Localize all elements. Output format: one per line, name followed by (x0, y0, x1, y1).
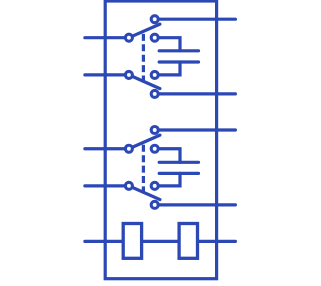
wire: contact set 1 NC contact 1 to plate (155, 38, 180, 51)
switch blade: contact set 1 pole 2 (129, 75, 160, 89)
coil winding 1 (123, 224, 141, 259)
wire: contact set 1 NC contact 2 to plate (155, 62, 180, 75)
plate: contact set 2 lower bar (159, 172, 198, 175)
wire: contact set 2 pole 2 lead (left) (85, 184, 129, 187)
contact circle: set 1 NO bottom (151, 90, 158, 97)
mechanical link (dashed) contact set 2 (142, 145, 145, 194)
plate: contact set 1 upper bar (159, 49, 198, 52)
plate: contact set 1 lower bar (159, 60, 198, 63)
contact circle: set 1 NC 2 (151, 71, 158, 78)
contact circle: set 2 pole 1 (125, 145, 132, 152)
wire: contact set 1 pole 1 lead (left) (85, 36, 129, 39)
switch blade: contact set 1 pole 1 (129, 24, 160, 38)
wire: contact set 2 NC contact 2 to plate (155, 173, 180, 185)
switch blade: contact set 2 pole 2 (129, 186, 160, 200)
wire: contact set 1 NO throw lead (bottom right) (155, 92, 236, 95)
contact circle: set 1 pole 1 (125, 34, 132, 41)
wire: contact set 2 pole 1 lead (left) (85, 147, 129, 150)
contact circle: set 1 NO top (151, 16, 158, 23)
wire: contact set 2 NO throw lead (top right) (155, 128, 236, 131)
wire: contact set 1 pole 2 lead (left) (85, 73, 129, 76)
coil winding 2 (179, 224, 197, 259)
contact circle: set 2 NO top (151, 127, 158, 134)
mechanical link (dashed) contact set 1 (142, 34, 145, 83)
contact circle: set 2 NO bottom (151, 201, 158, 208)
plate: contact set 2 upper bar (159, 161, 198, 164)
wire: contact set 2 NC contact 1 to plate (155, 149, 180, 163)
wire: contact set 1 NO throw lead (top right) (155, 18, 236, 21)
wire: coil lead (bottom, left to right) (85, 240, 236, 243)
contact circle: set 2 NC 1 (151, 145, 158, 152)
contact circle: set 1 pole 2 (125, 71, 132, 78)
switch blade: contact set 2 pole 1 (129, 135, 160, 149)
contact circle: set 2 pole 2 (125, 182, 132, 189)
contact circle: set 2 NC 2 (151, 182, 158, 189)
relay outline box (105, 1, 216, 279)
wire: contact set 2 NO throw lead (bottom right) (155, 203, 236, 206)
contact circle: set 1 NC 1 (151, 34, 158, 41)
